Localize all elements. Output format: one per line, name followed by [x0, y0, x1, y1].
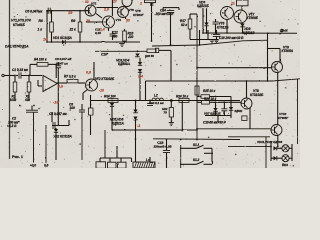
- svg-text:220: 220: [127, 35, 134, 39]
- svg-text:С1 0,15 мк: С1 0,15 мк: [12, 68, 28, 72]
- svg-text:0,4: 0,4: [138, 75, 143, 79]
- svg-text:R20 56: R20 56: [145, 54, 154, 58]
- svg-text:R8: R8: [39, 19, 43, 23]
- svg-text:22 к: 22 к: [69, 28, 76, 32]
- svg-text:R24 10 к: R24 10 к: [176, 94, 189, 98]
- svg-text:≈0,0: ≈0,0: [30, 164, 36, 168]
- svg-text:КД521Б: КД521Б: [197, 4, 210, 8]
- svg-text:К1.1: К1.1: [193, 143, 200, 147]
- svg-text:30: 30: [85, 0, 89, 4]
- svg-text:КД521А: КД521А: [112, 121, 125, 125]
- svg-text:VD1 КС315А: VD1 КС315А: [53, 36, 72, 40]
- svg-text:L2: L2: [154, 93, 158, 97]
- svg-text:82 к: 82 к: [181, 23, 187, 27]
- svg-text:VD2 КС515А: VD2 КС515А: [53, 134, 72, 138]
- svg-text:Вых: Вых: [281, 29, 288, 33]
- svg-text:КД503А: КД503А: [118, 62, 131, 66]
- svg-text:43к: 43к: [24, 98, 30, 102]
- svg-text:КТ3102Б: КТ3102Б: [250, 93, 264, 97]
- svg-text:1 к: 1 к: [38, 28, 43, 32]
- svg-text:VD7 КД521Б: VD7 КД521Б: [204, 112, 221, 116]
- svg-text:1,4: 1,4: [100, 27, 105, 31]
- svg-text:VT1: VT1: [91, 2, 97, 6]
- svg-text:R14 100: R14 100: [104, 94, 116, 98]
- svg-text:VD11,VD12 КД364: VD11,VD12 КД364: [257, 140, 282, 144]
- svg-text:-16: -16: [53, 101, 59, 105]
- svg-text:220мкФ 6,3В: 220мкФ 6,3В: [153, 145, 173, 149]
- svg-text:DA1 К574УД1А: DA1 К574УД1А: [5, 45, 29, 49]
- svg-text:0,6: 0,6: [44, 164, 49, 168]
- svg-text:R25 10 к: R25 10 к: [203, 89, 216, 93]
- svg-text:К1.2: К1.2: [193, 158, 200, 162]
- svg-text:200 мк×10 В: 200 мк×10 В: [155, 12, 175, 16]
- svg-text:Рис. 1: Рис. 1: [12, 155, 23, 159]
- svg-text:R7 3,3 к: R7 3,3 к: [64, 75, 76, 79]
- svg-text:С16 68 мк×30 В: С16 68 мк×30 В: [203, 120, 226, 124]
- svg-text:28: 28: [85, 19, 90, 23]
- svg-text:-10: -10: [99, 89, 104, 93]
- svg-text:КТ361Б: КТ361Б: [13, 23, 25, 27]
- svg-text:Вкл: Вкл: [282, 163, 288, 167]
- svg-text:КТ203Г: КТ203Г: [133, 13, 145, 17]
- svg-text:0,15: 0,15: [95, 31, 101, 35]
- svg-text:С10*: С10*: [101, 53, 109, 57]
- svg-text:L1: L1: [146, 158, 150, 162]
- svg-text:70: 70: [164, 111, 168, 115]
- svg-text:VT3: VT3: [116, 18, 122, 22]
- svg-text:R4 100 к: R4 100 к: [34, 58, 47, 62]
- svg-text:С9 0,047 мк: С9 0,047 мк: [55, 57, 72, 61]
- svg-text:КТ805А: КТ805А: [282, 49, 294, 53]
- svg-text:С6 0,047мк: С6 0,047мк: [25, 9, 43, 13]
- svg-text:КТ608Б: КТ608Б: [247, 16, 259, 20]
- svg-text:VT6: VT6: [129, 8, 135, 12]
- svg-text:КТ805Г: КТ805Г: [278, 116, 288, 120]
- svg-text:С18 200 мк×10 В: С18 200 мк×10 В: [219, 36, 244, 40]
- svg-text:+: +: [38, 107, 40, 111]
- svg-text:КД521: КД521: [235, 109, 243, 113]
